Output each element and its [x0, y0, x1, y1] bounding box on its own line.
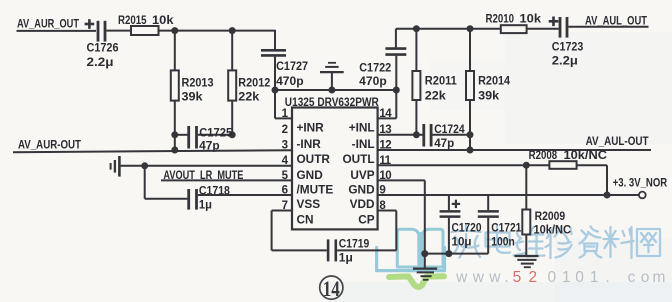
svg-text:R2011: R2011 — [425, 73, 457, 87]
capacitor C1726 — [97, 21, 100, 42]
wire UVP (pin11) — [378, 164, 550, 166]
svg-text:0: 0 — [575, 269, 584, 286]
resistor R2012 — [231, 31, 233, 71]
node R2013-C1725 — [171, 131, 178, 138]
capacitor C1720 — [448, 195, 450, 210]
svg-text:+3. 3V_NOR: +3. 3V_NOR — [613, 177, 668, 189]
node rail-R2013 — [171, 27, 178, 34]
svg-text:OUTR: OUTR — [297, 152, 331, 166]
capacitor C1719 — [327, 239, 330, 261]
node R2011--INL — [413, 131, 420, 138]
svg-text:1: 1 — [590, 269, 599, 286]
watermark url text — [455, 269, 665, 286]
node R2014-C1724 — [467, 131, 474, 138]
wire R2015 to C1727 column (top rail left) — [159, 30, 276, 32]
svg-text:R2015: R2015 — [118, 13, 147, 27]
svg-text:2: 2 — [528, 269, 537, 286]
wire OUTL (pin12) long — [378, 149, 651, 151]
svg-text:470p: 470p — [359, 74, 387, 88]
node C1727-gndwire — [272, 87, 279, 94]
svg-text:10k/NC: 10k/NC — [534, 222, 572, 236]
wire C1719 to CP (pin8) — [337, 249, 396, 251]
svg-text:1μ: 1μ — [339, 250, 353, 264]
top rail right — [396, 28, 501, 30]
svg-text:C1724: C1724 — [434, 122, 465, 136]
capacitor C1726 polarity plus — [85, 23, 95, 26]
svg-text:+INR: +INR — [297, 121, 325, 135]
svg-text:R2012: R2012 — [238, 75, 270, 89]
svg-text:C1719: C1719 — [339, 236, 370, 250]
wire AV_AUR_OUT to C1726 — [17, 30, 97, 32]
node UVP-R2009 — [523, 162, 530, 169]
svg-text:w: w — [488, 269, 501, 286]
svg-text:AV_AUR-OUT: AV_AUR-OUT — [18, 138, 81, 152]
svg-text:1: 1 — [282, 108, 289, 120]
resistor R2014 — [469, 29, 471, 71]
terminal +3.3V_NOR — [639, 192, 646, 199]
op-amp / driver IC U1325 DRV632PWR — [292, 108, 378, 230]
svg-text:22k: 22k — [425, 88, 446, 102]
ground wire above IC — [275, 89, 396, 91]
svg-text:4: 4 — [282, 155, 289, 167]
svg-text:R2009: R2009 — [535, 209, 566, 223]
svg-text:/MUTE: /MUTE — [297, 183, 334, 197]
svg-text:C1726: C1726 — [87, 40, 119, 54]
ground (inverted, above IC) — [331, 73, 333, 90]
ground (bottom center) — [424, 254, 426, 268]
svg-text:R2014: R2014 — [478, 73, 510, 87]
svg-text:100n: 100n — [491, 234, 515, 248]
svg-text:UVP: UVP — [350, 168, 374, 182]
svg-text:2.2μ: 2.2μ — [87, 55, 114, 69]
svg-text:AV_AUL-OUT: AV_AUL-OUT — [586, 134, 649, 148]
svg-text:OUTL: OUTL — [342, 152, 374, 166]
svg-text:7: 7 — [282, 200, 288, 212]
capacitor C1727 — [274, 30, 276, 50]
svg-text:CP: CP — [358, 213, 375, 227]
capacitor C1721 — [487, 195, 489, 210]
node rail-R2014 — [467, 25, 474, 32]
svg-text:w: w — [472, 269, 485, 286]
svg-text:10k: 10k — [152, 13, 174, 27]
capacitor C1723 polarity plus — [549, 20, 559, 23]
svg-text:14: 14 — [323, 276, 340, 301]
resistor R2008 — [549, 161, 576, 169]
capacitor C1725 — [175, 134, 188, 136]
ground (under R2009) — [525, 235, 527, 256]
capacitor C1720 polarity plus — [452, 203, 460, 205]
wire C1727 to +INR pin1 — [274, 57, 276, 119]
svg-text:GND: GND — [348, 183, 375, 197]
svg-text:R2013: R2013 — [182, 75, 214, 89]
svg-text:C1721: C1721 — [491, 220, 521, 234]
node R2013-OUTR — [171, 147, 178, 154]
wire C1718 to VSS pin6 — [198, 194, 292, 196]
svg-text:R2010: R2010 — [486, 11, 515, 25]
svg-text:R2008: R2008 — [529, 148, 558, 162]
svg-text:10μ: 10μ — [452, 234, 472, 248]
wire C1722 to +INL pin14 — [395, 56, 397, 119]
resistor R2015 — [131, 26, 159, 35]
svg-text:1: 1 — [562, 269, 571, 286]
wire GND (pin10) down — [378, 179, 425, 181]
svg-text:0: 0 — [547, 269, 556, 286]
svg-text:-INR: -INR — [297, 137, 322, 151]
svg-text:1μ: 1μ — [199, 198, 212, 212]
svg-text:GND: GND — [297, 168, 324, 182]
node rail-R2011 — [413, 25, 420, 32]
wire -INL pin13 — [378, 134, 423, 136]
node R2014-OUTL — [467, 147, 474, 154]
svg-text:C1723: C1723 — [552, 40, 584, 54]
svg-text:CN: CN — [297, 213, 314, 227]
svg-text:C1727: C1727 — [276, 59, 308, 73]
node C1722-gndwire — [393, 87, 400, 94]
svg-text:5: 5 — [282, 170, 289, 182]
svg-text:VSS: VSS — [297, 197, 321, 211]
svg-text:2: 2 — [282, 124, 288, 136]
svg-text:6: 6 — [282, 184, 288, 196]
svg-text:.: . — [504, 269, 508, 286]
svg-text:C1722: C1722 — [359, 61, 391, 75]
svg-text:+INL: +INL — [349, 121, 375, 135]
resistor R2013 — [174, 31, 176, 71]
svg-text:C1720: C1720 — [452, 220, 482, 234]
node rail-R2012 — [229, 27, 236, 34]
node R2012--INR — [229, 131, 236, 138]
ground rail bottom — [425, 253, 488, 255]
capacitor C1722 — [395, 29, 397, 48]
svg-text:39k: 39k — [478, 88, 499, 102]
svg-text:AV_AUL_OUT: AV_AUL_OUT — [585, 14, 647, 28]
svg-text:22k: 22k — [238, 89, 259, 103]
capacitor C1723 — [559, 17, 562, 38]
svg-text:10k: 10k — [520, 11, 542, 25]
capacitor C1724 — [422, 124, 425, 147]
svg-text:c: c — [628, 269, 636, 286]
resistor R2009 — [525, 165, 527, 209]
wire /MUTE (pin5) — [161, 179, 292, 181]
wire VDD (pin9) to +3.3V — [378, 194, 639, 196]
node R2008-VDD rail — [604, 192, 611, 199]
ground (left, pointing left) — [120, 165, 144, 167]
capacitor C1718 — [187, 189, 190, 210]
wire C1726 to R2015 — [106, 30, 131, 32]
wire C1723 to AV_AUL_OUT — [568, 26, 648, 28]
wire R2013 to OUTR line — [174, 101, 176, 150]
svg-text:.: . — [605, 269, 609, 286]
circled 14 marker — [320, 276, 343, 299]
svg-text:w: w — [455, 269, 468, 286]
wire OUTR (pin3) — [13, 150, 292, 152]
wire gnd branch down to C1718 — [144, 166, 146, 199]
watermark book icon — [377, 229, 445, 270]
svg-text:U1325 DRV632PWR: U1325 DRV632PWR — [285, 95, 379, 109]
node gndrail-pin10 — [421, 250, 428, 257]
node gnd-C1718 branch — [141, 162, 148, 169]
svg-text:470p: 470p — [276, 74, 304, 88]
svg-text:39k: 39k — [182, 89, 203, 103]
svg-text:5: 5 — [513, 269, 522, 286]
resistor R2010 — [500, 28, 502, 30]
wire R2012 to -INR pin2 — [231, 101, 233, 135]
svg-text:o: o — [641, 269, 650, 286]
node gnd-symbol-gndwire — [328, 87, 335, 94]
svg-text:10k/NC: 10k/NC — [564, 148, 608, 162]
resistor R2011 — [415, 29, 417, 71]
svg-text:VDD: VDD — [350, 197, 375, 211]
watermark green swoosh — [389, 276, 444, 287]
svg-text:3: 3 — [282, 139, 288, 151]
svg-text:m: m — [653, 269, 666, 286]
svg-text:-INL: -INL — [352, 137, 375, 151]
svg-text:C1725: C1725 — [199, 125, 232, 139]
svg-text:2.2μ: 2.2μ — [552, 53, 578, 67]
svg-text:47p: 47p — [434, 136, 454, 150]
wire GND (pin4) — [145, 165, 292, 167]
node gndrail-C1720 — [445, 250, 452, 257]
watermark chinese characters — [452, 226, 661, 259]
svg-text:AV_AUR_OUT: AV_AUR_OUT — [17, 17, 79, 31]
wire CN (pin7) down — [272, 210, 292, 212]
